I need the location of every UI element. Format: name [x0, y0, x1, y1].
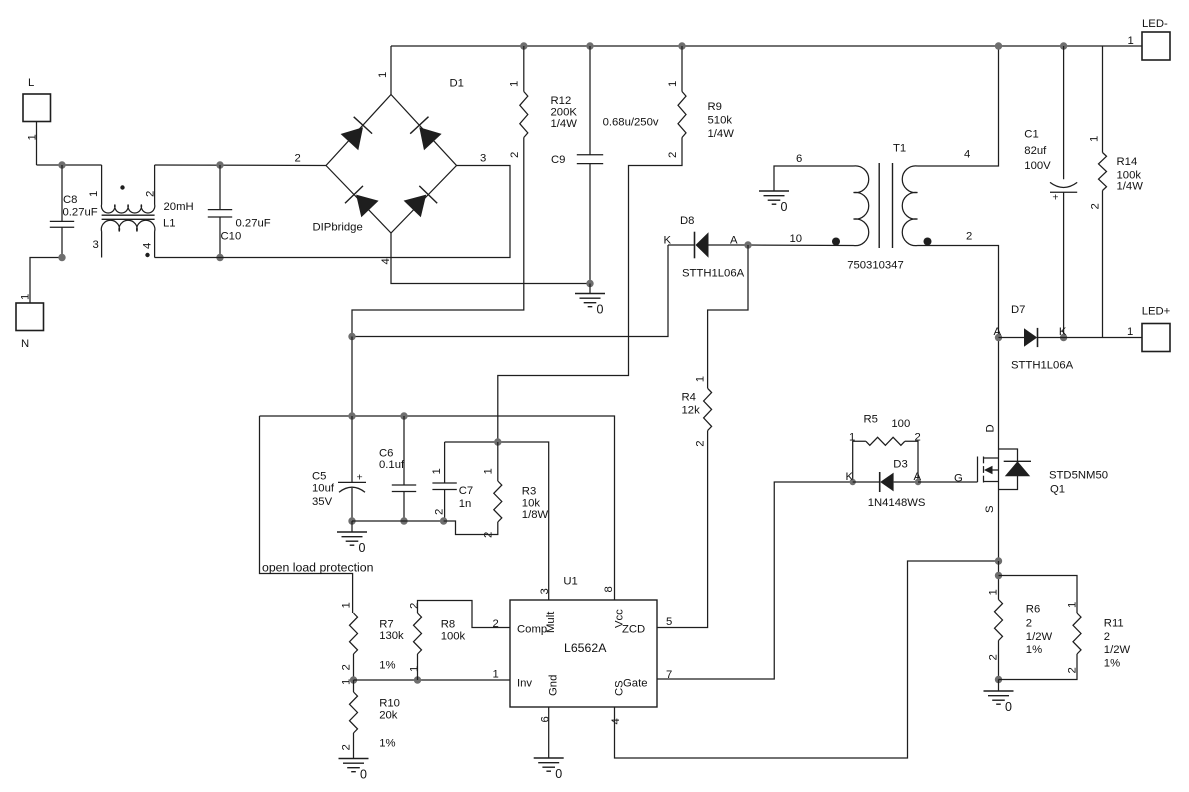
svg-text:1N4148WS: 1N4148WS: [868, 497, 926, 509]
svg-text:10: 10: [790, 233, 803, 245]
bridge rectifier D1 DIPbridge: [326, 95, 457, 234]
svg-text:20mH: 20mH: [164, 201, 194, 213]
junction multiplier node: [494, 438, 501, 445]
cathode K label of D8: [664, 235, 672, 247]
pin 1 label of C7: [431, 468, 443, 474]
value 130k of R7: [379, 630, 404, 642]
svg-text:Inv: Inv: [517, 678, 532, 690]
svg-text:2: 2: [966, 231, 972, 243]
pin 7 label of U1: [666, 669, 672, 681]
svg-text:35V: 35V: [312, 496, 333, 508]
svg-text:0: 0: [781, 200, 788, 214]
pin 3 label of bridge: [480, 153, 486, 165]
svg-text:0: 0: [360, 768, 367, 782]
svg-text:4: 4: [610, 718, 622, 724]
label D8: [680, 215, 694, 227]
wire R9 bottom to multiplier divider: [498, 138, 682, 443]
wire U1 CS pin 4 to sense node: [615, 561, 999, 758]
svg-text:Mult: Mult: [545, 611, 557, 633]
wire R8 bottom lead: [417, 654, 419, 680]
pin name Gnd: [548, 675, 560, 696]
pin 2 label of R3: [483, 532, 495, 538]
capacitor C5 10uf 35V (polarized): [338, 471, 366, 492]
pin name Inv: [517, 678, 532, 690]
svg-text:100k: 100k: [441, 631, 466, 643]
svg-text:N: N: [21, 338, 29, 350]
ground stub below R6: [998, 680, 1000, 692]
wire U1 Gate pin 7 to gate network: [657, 482, 851, 679]
svg-text:4: 4: [142, 243, 154, 249]
anode A label of D3: [914, 471, 922, 483]
connector LED+ output: [1142, 324, 1170, 352]
resistor R6 2 1/2W 1%: [995, 600, 1003, 641]
pin 1 label of R11: [1067, 602, 1079, 608]
polarity dot T1 secondary: [924, 238, 932, 246]
rating 1/4W of R14: [1117, 180, 1144, 192]
svg-text:2: 2: [667, 152, 679, 158]
pin 2 label of L1: [145, 191, 157, 197]
wire D8 cathode to Vcc node: [352, 245, 668, 337]
svg-text:C9: C9: [551, 154, 565, 166]
svg-text:STTH1L06A: STTH1L06A: [1011, 360, 1074, 372]
wire R12 bottom to Vcc node: [352, 138, 524, 338]
svg-text:2: 2: [434, 509, 446, 515]
wire C6 top lead: [403, 416, 405, 485]
wire bridge pin 4 to ground rail: [391, 233, 590, 284]
svg-text:R6: R6: [1026, 604, 1040, 616]
svg-text:open load protection: open load protection: [262, 561, 374, 575]
rating 35V of C5: [312, 496, 333, 508]
wire C9 bottom lead: [589, 164, 591, 284]
value 1N4148WS of D3: [868, 497, 926, 509]
wire C7 bottom lead: [444, 490, 446, 522]
svg-text:1: 1: [341, 602, 353, 608]
pin 8 label of U1: [603, 586, 615, 592]
rating 1/4W of R9: [708, 128, 735, 140]
svg-text:Q1: Q1: [1050, 484, 1065, 496]
svg-text:G: G: [954, 473, 963, 485]
svg-text:STD5NM50: STD5NM50: [1049, 470, 1108, 482]
junction C1 bottom on LED+ wire: [1060, 334, 1067, 341]
junction D3 cathode / R5 pin 1: [850, 479, 856, 485]
pin 3 label of U1: [539, 588, 551, 594]
label R8: [441, 619, 455, 631]
resistor R9 510k 1/4W: [678, 92, 686, 138]
label C7: [459, 485, 473, 497]
pin name Mult: [545, 611, 557, 633]
gate G label of Q1: [954, 473, 963, 485]
wire D8 cathode lead: [668, 244, 695, 246]
label C10: [221, 231, 242, 243]
pin 1 label of R5: [849, 432, 855, 444]
cathode K label of D7: [1059, 326, 1067, 338]
pin 1 label of L1: [88, 191, 100, 197]
svg-text:8: 8: [603, 586, 615, 592]
wire R10 top lead: [353, 680, 355, 692]
svg-text:1%: 1%: [1104, 658, 1120, 670]
capacitor C10 0.27uF (after choke): [208, 210, 232, 217]
svg-text:D1: D1: [450, 78, 464, 90]
tolerance 1% of R11: [1104, 658, 1120, 670]
pin 1 label of R3: [483, 468, 495, 474]
wire N connector up to AC bottom rail: [30, 258, 62, 304]
wire D3 cathode lead: [853, 481, 880, 483]
ground stub below C5: [351, 521, 353, 532]
label R7: [379, 619, 393, 631]
svg-text:1: 1: [1127, 326, 1133, 338]
svg-text:R4: R4: [682, 392, 696, 404]
annotation open load protection: [262, 561, 374, 575]
value 100k of R14: [1117, 170, 1142, 182]
wire R14 bottom lead: [1102, 191, 1104, 338]
wire gate node to Q1 gate: [918, 481, 978, 483]
pin 6 label of U1: [540, 716, 552, 722]
pin 10 label of T1: [790, 233, 803, 245]
wire C1 top lead: [1063, 46, 1065, 179]
pin 2 label of T1: [966, 231, 972, 243]
svg-text:C5: C5: [312, 471, 326, 483]
cathode K label of D3: [846, 471, 854, 483]
label R3: [522, 486, 536, 498]
tolerance 1% of R10: [379, 738, 395, 750]
pin 1 label of L connector: [27, 134, 39, 140]
ground symbol 0 below R10: [339, 759, 369, 782]
junction R12 top on DC+ rail: [520, 42, 527, 49]
wire R14 top lead: [1102, 46, 1104, 153]
wire T1 pin 6 to ground: [774, 166, 854, 191]
pin 5 label of U1: [666, 616, 672, 628]
wire AC line top: L to L1 pin 1: [37, 164, 102, 166]
label D3: [893, 459, 907, 471]
wire Q1 drain to D7 anode node: [998, 338, 1000, 459]
wire branch to R11: [999, 576, 1078, 614]
wire R4 bottom to U1 ZCD pin 5: [657, 431, 708, 628]
svg-text:D3: D3: [893, 459, 907, 471]
pin 1 label of R10: [341, 679, 353, 685]
junction C10 bottom: [216, 254, 223, 261]
rating 1/8W of R3: [522, 509, 549, 521]
pin 1 label of N connector: [20, 294, 32, 300]
rating 1/4W of R12: [551, 118, 578, 130]
pin name Comp: [517, 624, 547, 636]
connector J2 N (neutral input): [16, 303, 44, 331]
wire U1 Gnd pin 6 to ground: [548, 707, 550, 758]
svg-text:D: D: [985, 424, 997, 432]
wire Vcc decoupling ground net: [352, 520, 444, 522]
svg-text:0: 0: [1005, 700, 1012, 714]
wire R8 top to U1 Comp pin 2: [418, 601, 511, 628]
svg-text:20k: 20k: [379, 710, 398, 722]
svg-text:0: 0: [359, 541, 366, 555]
label L (connector name): [28, 77, 34, 89]
svg-text:Comp: Comp: [517, 624, 547, 636]
pin 2 label of bridge: [295, 153, 301, 165]
label D1: [450, 78, 464, 90]
svg-text:1/2W: 1/2W: [1104, 644, 1131, 656]
label R14: [1117, 156, 1138, 168]
svg-text:C8: C8: [63, 194, 77, 206]
junction C7 bottom: [440, 517, 447, 524]
junction C6 top on Vcc rail: [400, 412, 407, 419]
wire R5 pin 1 lead: [853, 441, 866, 482]
pin 2 label of R7: [341, 664, 353, 670]
junction D3 anode / R5 pin 2: [915, 479, 921, 485]
svg-text:D7: D7: [1011, 304, 1025, 316]
svg-text:1%: 1%: [1026, 644, 1042, 656]
junction D7 anode / Q1 drain / T1 pin 2: [995, 334, 1002, 341]
label R4: [682, 392, 696, 404]
wire D3 anode lead: [894, 481, 918, 483]
junction R6 bottom / R11 return: [995, 676, 1002, 683]
anode A label of D7: [994, 326, 1002, 338]
svg-text:A: A: [730, 235, 738, 247]
wire L1 pin 4 to bridge pin 3 via lower rail: [155, 166, 510, 258]
svg-text:10k: 10k: [522, 498, 541, 510]
svg-text:1/8W: 1/8W: [522, 509, 549, 521]
connector LED- output: [1142, 32, 1170, 60]
pin 3 label of L1: [93, 239, 99, 251]
svg-text:LED+: LED+: [1142, 306, 1171, 318]
value 100k of R8: [441, 631, 466, 643]
value 0.68u/250v of C9: [603, 117, 659, 129]
ground symbol 0 below U1 pin 6: [534, 758, 564, 781]
svg-text:C7: C7: [459, 485, 473, 497]
svg-text:T1: T1: [893, 143, 906, 155]
svg-text:K: K: [846, 471, 854, 483]
connector J1 L (line input): [23, 94, 51, 122]
capacitor C8 0.27uF (X cap across line): [50, 221, 74, 227]
junction C1 top on DC+ rail: [1060, 42, 1067, 49]
svg-text:R5: R5: [864, 414, 878, 426]
svg-text:0.1uf: 0.1uf: [379, 459, 405, 471]
value STD5NM50 of Q1: [1049, 470, 1108, 482]
junction C10 top: [216, 161, 223, 168]
label R12: [551, 95, 572, 107]
pin 2 label of R14: [1089, 203, 1101, 209]
pin 4 label of T1: [964, 149, 970, 161]
svg-text:6: 6: [796, 153, 802, 165]
wire bridge pin 1 to DC+ rail: [390, 46, 392, 95]
pin 2 label of R8: [408, 603, 420, 609]
value 0.1uf of C6: [379, 459, 405, 471]
pin 2 label of R4: [694, 440, 706, 446]
svg-text:C10: C10: [221, 231, 242, 243]
label T1: [893, 143, 906, 155]
junction C5 bottom: [348, 517, 355, 524]
wire C10 bottom lead: [219, 217, 221, 258]
svg-text:+: +: [357, 471, 363, 483]
pin 1 label of R8: [408, 666, 420, 672]
svg-text:1: 1: [509, 81, 521, 87]
svg-text:0.27uF: 0.27uF: [236, 218, 271, 230]
label U1: [563, 576, 577, 588]
pin 2 label of R10: [341, 744, 353, 750]
pin 1 label of R9: [667, 81, 679, 87]
svg-text:1: 1: [483, 468, 495, 474]
wire R10 bottom to ground: [353, 733, 355, 759]
svg-text:0: 0: [597, 303, 604, 317]
wire C8 bottom lead: [61, 227, 63, 257]
wire Q1 source down to sense node: [998, 490, 1000, 562]
wire C10 top lead: [219, 165, 221, 210]
svg-text:STTH1L06A: STTH1L06A: [682, 268, 745, 280]
wire L connector to AC top rail: [36, 122, 38, 166]
svg-text:1/4W: 1/4W: [551, 118, 578, 130]
pin 1 label of R6: [988, 589, 1000, 595]
wire Vcc rail to U1 pin 8: [260, 416, 615, 600]
svg-text:+: +: [1052, 192, 1058, 204]
svg-text:Gnd: Gnd: [548, 675, 560, 696]
label C9: [551, 154, 565, 166]
svg-text:2: 2: [341, 744, 353, 750]
capacitor C7 1n: [432, 483, 456, 490]
wire C5 bottom lead: [351, 488, 353, 521]
pin 2 label of R6: [988, 654, 1000, 660]
wire D7 cathode to LED+ connector: [1038, 337, 1143, 339]
resistor R4 12k: [704, 388, 712, 430]
resistor R12 200K 1/4W: [520, 92, 528, 138]
svg-text:1: 1: [341, 679, 353, 685]
svg-text:R7: R7: [379, 619, 393, 631]
svg-text:750310347: 750310347: [847, 259, 904, 271]
wire C5 top lead: [351, 416, 353, 482]
wire T1 pin 4 to DC+ rail: [918, 46, 999, 166]
capacitor C9 0.68u/250v: [577, 155, 603, 164]
svg-text:0.68u/250v: 0.68u/250v: [603, 117, 659, 129]
source S label of Q1: [984, 505, 996, 513]
svg-text:R14: R14: [1117, 156, 1138, 168]
svg-text:1%: 1%: [379, 660, 395, 672]
svg-text:1: 1: [667, 81, 679, 87]
junction R6 top / R11 branch: [995, 572, 1002, 579]
svg-text:LED-: LED-: [1142, 18, 1168, 30]
svg-text:2: 2: [1104, 631, 1110, 643]
value 510k of R9: [708, 115, 733, 127]
resistor R14 100k 1/4W: [1099, 153, 1107, 191]
value 10uf of C5: [312, 483, 335, 495]
svg-text:1: 1: [849, 432, 855, 444]
wire open load protection feedback: [260, 416, 353, 613]
pin 4 label of U1: [610, 718, 622, 724]
svg-text:1: 1: [694, 376, 706, 382]
junction C8 top: [58, 161, 65, 168]
op-amp U1 L6562A controller box: [510, 600, 657, 707]
label R6: [1026, 604, 1040, 616]
value 2 of R11: [1104, 631, 1110, 643]
value DIPbridge of D1: [313, 222, 363, 234]
junction C8 bottom: [58, 254, 65, 261]
svg-text:0: 0: [555, 767, 562, 781]
value 1n of C7: [459, 498, 472, 510]
svg-text:2: 2: [493, 618, 499, 630]
ground symbol 0 below C9: [575, 294, 605, 317]
pin 4 label of bridge: [380, 258, 392, 264]
value 12k of R4: [682, 405, 701, 417]
junction R8 bottom on Inv wire: [414, 676, 421, 683]
transformer T1 750310347: [854, 163, 918, 248]
label R9: [708, 101, 722, 113]
wire D7 anode lead: [999, 337, 1025, 339]
value 10k of R3: [522, 498, 541, 510]
pin 1 label of bridge: [377, 72, 389, 78]
svg-text:2: 2: [1089, 203, 1101, 209]
tolerance 1% of R6: [1026, 644, 1042, 656]
wire R3 bottom jog to ground net: [444, 521, 498, 535]
svg-text:R12: R12: [551, 95, 572, 107]
value 2 of R6: [1026, 618, 1032, 630]
svg-text:1%: 1%: [379, 738, 395, 750]
pin 2 label of U1: [493, 618, 499, 630]
svg-text:2: 2: [988, 654, 1000, 660]
svg-text:2: 2: [145, 191, 157, 197]
svg-text:U1: U1: [563, 576, 577, 588]
junction Q1 source / CS: [995, 557, 1002, 564]
inductor L1 common-mode choke 20mH: [101, 165, 155, 258]
diode D7 STTH1L06A (points right): [1024, 328, 1038, 347]
svg-text:100: 100: [891, 418, 910, 430]
svg-text:1: 1: [988, 589, 1000, 595]
svg-text:1/4W: 1/4W: [708, 128, 735, 140]
resistor R7 130k 1%: [350, 613, 358, 654]
svg-text:6: 6: [540, 716, 552, 722]
svg-text:R11: R11: [1104, 618, 1124, 630]
diode D8 STTH1L06A (points left): [695, 232, 709, 259]
capacitor C1 82uf 100V (polarized): [1050, 182, 1077, 203]
svg-text:1/2W: 1/2W: [1026, 631, 1053, 643]
wire T1 pin 2 to D7 anode: [918, 246, 999, 338]
wire C6 bottom lead: [403, 492, 405, 522]
resistor R11 2 1/2W 1%: [1073, 613, 1081, 654]
svg-text:200K: 200K: [551, 107, 578, 119]
wire R3 top lead: [497, 442, 499, 481]
svg-text:100V: 100V: [1024, 160, 1051, 172]
wire R7 bottom to Inv node: [353, 654, 355, 680]
ground symbol 0 below C5: [337, 532, 367, 555]
svg-text:510k: 510k: [708, 115, 733, 127]
pin 1 label of R14: [1088, 136, 1100, 142]
svg-text:2: 2: [1026, 618, 1032, 630]
svg-text:A: A: [994, 326, 1002, 338]
svg-text:82uf: 82uf: [1024, 145, 1047, 157]
rating 1/2W of R6: [1026, 631, 1053, 643]
wire C7 top lead: [444, 442, 446, 483]
wire R6 bottom to ground: [998, 641, 1000, 680]
svg-text:2: 2: [341, 664, 353, 670]
junction C5 top on Vcc rail: [348, 412, 355, 419]
pin 2 label of C7: [434, 509, 446, 515]
wire D8 anode lead: [709, 244, 749, 246]
label L1: [163, 218, 176, 230]
svg-text:L6562A: L6562A: [564, 641, 607, 655]
wire C1 bottom lead: [1063, 192, 1065, 337]
pin 2 label of R11: [1067, 667, 1079, 673]
svg-text:5: 5: [666, 616, 672, 628]
wire C9 top lead: [589, 46, 591, 155]
svg-text:2: 2: [295, 153, 301, 165]
junction C6 bottom: [400, 517, 407, 524]
svg-text:0.27uF: 0.27uF: [63, 207, 98, 219]
svg-text:D8: D8: [680, 215, 694, 227]
part number L6562A of U1: [564, 641, 607, 655]
svg-text:R9: R9: [708, 101, 722, 113]
label C6: [379, 448, 393, 460]
wire R12 top lead: [523, 46, 525, 92]
label R11: [1104, 618, 1124, 630]
label LED+: [1142, 306, 1171, 318]
value STTH1L06A of D8: [682, 268, 745, 280]
label C1: [1024, 129, 1038, 141]
anode A label of D8: [730, 235, 738, 247]
